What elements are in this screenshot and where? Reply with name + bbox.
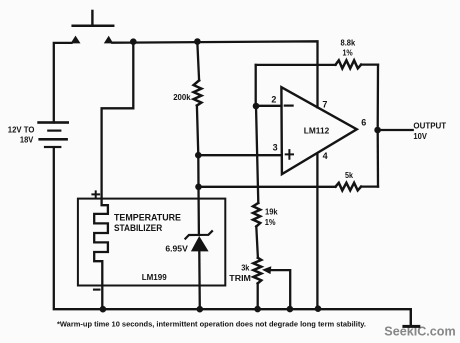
svg-text:1%: 1% [343,49,353,58]
svg-text:6.95V: 6.95V [165,244,188,253]
svg-text:200k: 200k [173,93,191,102]
svg-text:5k: 5k [345,171,353,180]
svg-text:STABILIZER: STABILIZER [114,223,163,233]
svg-text:6: 6 [361,117,366,127]
svg-text:12V TO: 12V TO [8,125,35,134]
svg-text:3: 3 [273,143,278,153]
svg-text:10V: 10V [413,131,427,141]
svg-text:3k: 3k [241,264,250,273]
svg-text:LM112: LM112 [304,125,330,135]
svg-text:4: 4 [323,151,328,161]
svg-text:2: 2 [271,94,276,104]
svg-text:TRIM: TRIM [229,274,251,283]
svg-text:LM199: LM199 [142,272,167,282]
svg-text:1%: 1% [265,218,276,227]
svg-text:*Warm-up time 10 seconds, inte: *Warm-up time 10 seconds, intermittent o… [57,321,366,328]
svg-text:7: 7 [322,100,327,110]
svg-text:OUTPUT: OUTPUT [413,121,447,131]
svg-text:19k: 19k [265,207,278,216]
svg-text:8.8k: 8.8k [341,38,356,47]
svg-text:TEMPERATURE: TEMPERATURE [114,212,181,222]
svg-text:18V: 18V [20,136,34,145]
